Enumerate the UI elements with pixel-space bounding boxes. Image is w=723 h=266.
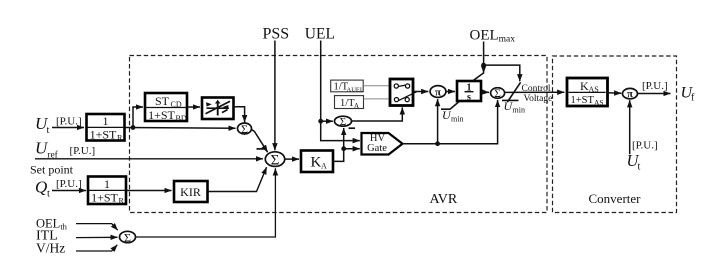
wire KAS output to multiplier P2 [608, 92, 622, 94]
minus sign below summer S3 [349, 127, 355, 129]
junction dot HV output [435, 141, 440, 146]
wire OELth into summer S5 [76, 224, 118, 231]
wire Uref into main summer S2 [35, 158, 263, 160]
wire PSS vertical into summer S2 [274, 41, 276, 151]
svg-text:Σ: Σ [271, 153, 280, 169]
multiplier P2 [623, 88, 638, 100]
integrator upper limit diagonal [473, 73, 484, 81]
wire Qt input arrow [52, 190, 86, 192]
junction dot KA branch [341, 146, 346, 151]
svg-text:BD: BD [176, 114, 187, 123]
svg-text:Converter: Converter [589, 191, 642, 206]
block 1/TAUEL [331, 80, 364, 93]
multiplier P1 [430, 86, 446, 99]
wire S4 output control voltage to KAS [505, 91, 565, 93]
wire B4 output to summer S1 top [234, 107, 245, 123]
wire UEL branch into summer S3 [321, 120, 333, 122]
wire ITL into summer S5 [76, 236, 118, 238]
wire KA branch to HV Gate lower input [344, 148, 360, 150]
output limiter diagonal [507, 82, 520, 102]
block B1 voltage transducer 1/(1+STR) [87, 114, 125, 142]
block B4 rate limiter icon [202, 98, 234, 120]
svg-text:t: t [47, 189, 50, 200]
svg-text:min: min [451, 114, 463, 123]
wire HV Gate output to summer S4 bottom [403, 100, 498, 144]
HV Gate block [362, 133, 403, 155]
wire P1 output to integrator [446, 91, 455, 93]
svg-text:1/T: 1/T [340, 98, 355, 109]
wire S5 output up into main summer S2 bottom [136, 168, 276, 237]
svg-text:Σ: Σ [494, 88, 501, 100]
block 1/TA [335, 96, 364, 110]
svg-text:UEL: UEL [305, 26, 335, 43]
svg-text:t: t [47, 125, 50, 136]
svg-text:Gate: Gate [367, 143, 387, 154]
junction dot after B1 [131, 125, 136, 130]
svg-text:PSS: PSS [263, 26, 290, 43]
block B5 KIR [174, 181, 208, 202]
svg-text:Σ: Σ [340, 116, 346, 128]
wire B2 to KIR [127, 190, 172, 192]
wire Ut input arrow [52, 127, 84, 129]
wire P2 output to Uf [637, 93, 671, 95]
dashed box AVR [130, 56, 548, 213]
svg-text:Control: Control [522, 84, 551, 94]
svg-text:R: R [117, 133, 123, 142]
wire 1/TAUEL to switch [363, 85, 390, 87]
junction dot OEL branch [481, 63, 486, 68]
summer S4 [491, 88, 505, 101]
wire Ut feedback into P2 bottom [629, 100, 631, 154]
svg-text:A: A [321, 162, 327, 171]
svg-text:[P.U.]: [P.U.] [56, 178, 82, 190]
wire S3 output to switch control [352, 107, 403, 121]
wire switch output to multiplier P1 [413, 91, 428, 93]
svg-text:1: 1 [103, 114, 109, 128]
wire OEL_max vertical onto integrator upper limit [483, 42, 485, 73]
wire KA output up to summer S3 [333, 128, 344, 161]
svg-text:V/Hz: V/Hz [36, 241, 65, 256]
svg-text:ST: ST [155, 94, 170, 108]
block B7 selector switch [390, 79, 418, 106]
svg-text:π: π [435, 86, 441, 98]
minus sign at S2 upper-left [257, 148, 265, 150]
svg-text:1+ST: 1+ST [91, 190, 118, 204]
wire S1 output diagonal to main summer S2 [252, 130, 268, 153]
svg-text:1+ST: 1+ST [90, 127, 117, 141]
junction dot UEL branch [318, 119, 323, 124]
output limiter bar [502, 99, 519, 101]
integrator lower limit diagonal and bar [441, 102, 459, 110]
svg-text:KIR: KIR [180, 185, 201, 199]
svg-text:AUEL: AUEL [347, 87, 364, 94]
svg-text:1: 1 [104, 177, 110, 191]
wire branch up into derivative block B3 [133, 107, 143, 128]
summer S2 main [265, 152, 284, 169]
svg-text:[P.U.]: [P.U.] [56, 115, 82, 127]
wire V/Hz into summer S5 [76, 245, 117, 251]
wire integrator output to summer S4 [481, 91, 489, 93]
svg-text:Set point: Set point [30, 163, 74, 177]
wire UEL vertical then to HV Gate upper input [321, 41, 360, 141]
dashed box Converter [553, 56, 677, 213]
svg-text:K: K [311, 155, 322, 171]
wire B1 output to summer S1 [125, 127, 236, 130]
summer S3 UEL takeover [335, 116, 352, 128]
svg-text:A: A [354, 102, 359, 110]
block B8 integrator 1/s [457, 81, 481, 103]
svg-text:Σ: Σ [124, 231, 131, 245]
svg-text:1+ST: 1+ST [571, 95, 595, 106]
svg-text:min: min [513, 105, 525, 114]
summer S1 (Ut compare) [238, 122, 252, 136]
svg-text:t: t [638, 162, 641, 173]
block B2 reactive transducer 1/(1+STR) [88, 177, 126, 206]
svg-text:Q: Q [35, 178, 47, 197]
svg-text:AVR: AVR [430, 192, 458, 207]
wire 1/TA to switch [364, 98, 391, 100]
svg-text:π: π [627, 89, 633, 100]
block B6 KA gain [301, 151, 333, 173]
svg-text:[P.U.]: [P.U.] [70, 145, 96, 157]
wire B3 to rate limiter B4 [187, 106, 200, 108]
svg-text:1+ST: 1+ST [148, 108, 175, 122]
svg-text:s: s [467, 92, 471, 103]
summer S5 limiters [120, 231, 136, 245]
wire S2 output to KA [285, 158, 299, 160]
block B9 converter KAS/(1+STAS) [567, 78, 608, 107]
svg-text:Σ: Σ [241, 122, 248, 136]
wire KIR output to main summer S2 [208, 167, 267, 191]
svg-text:AS: AS [594, 98, 604, 107]
block B3 transient gain STCD/(1+STBD) [145, 93, 187, 123]
svg-text:Voltage: Voltage [524, 94, 553, 104]
svg-text:[P.U.]: [P.U.] [632, 140, 658, 152]
svg-text:R: R [119, 196, 125, 205]
wire OEL branch onto output limiter [484, 65, 520, 81]
svg-text:[P.U.]: [P.U.] [642, 80, 668, 92]
wire branch up into P1 bottom [437, 99, 439, 144]
